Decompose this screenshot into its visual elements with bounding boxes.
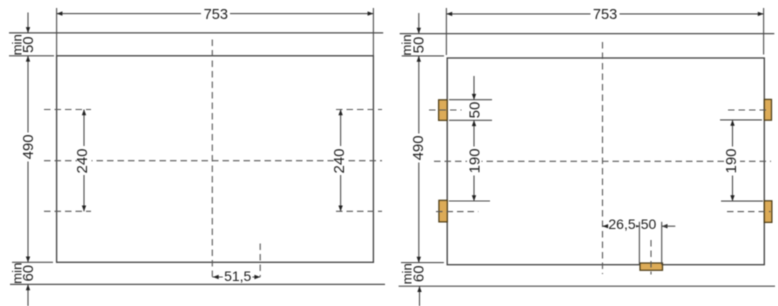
extension line left of bottom clip (right drawing) bbox=[638, 222, 640, 265]
dimension min 50 (left drawing) bbox=[9, 13, 54, 56]
svg-text:190: 190 bbox=[723, 148, 740, 173]
dimension 753 (left drawing) bbox=[57, 7, 374, 56]
horizontal centerline (right drawing) bbox=[434, 160, 771, 162]
dimension 190 left (right drawing) bbox=[449, 120, 490, 201]
dimension 490 (left drawing) bbox=[20, 56, 37, 262]
svg-text:50: 50 bbox=[467, 102, 484, 119]
vertical centerline (left drawing) bbox=[211, 40, 213, 277]
upper-left dashed mark (left drawing) bbox=[44, 109, 91, 111]
dimension 240 right (left drawing) bbox=[331, 110, 348, 212]
clip bottom-center centerline bbox=[650, 240, 652, 275]
svg-text:60: 60 bbox=[20, 265, 37, 282]
clip bottom-left centerline bbox=[436, 211, 478, 213]
countertop bottom edge (left drawing) bbox=[10, 283, 385, 285]
clip bottom-left (right drawing) bbox=[439, 200, 447, 222]
svg-text:26,5: 26,5 bbox=[608, 216, 635, 232]
clip top-left (right drawing) bbox=[439, 100, 448, 121]
dimension 753 (right drawing) bbox=[446, 6, 763, 55]
countertop top edge (right drawing) bbox=[400, 33, 775, 35]
horizontal centerline (left drawing) bbox=[44, 160, 382, 162]
svg-text:190: 190 bbox=[467, 148, 484, 173]
countertop bottom edge (right drawing) bbox=[399, 285, 775, 287]
countertop top edge (left drawing) bbox=[9, 32, 383, 34]
drain offset dashed line (left drawing) bbox=[259, 244, 261, 277]
clip bottom-right centerline bbox=[727, 211, 771, 213]
svg-text:753: 753 bbox=[593, 7, 617, 23]
clip top-right (right drawing) bbox=[764, 99, 771, 120]
dimension 190 right (right drawing) bbox=[720, 120, 763, 201]
svg-text:50: 50 bbox=[411, 37, 428, 54]
vertical centerline (right drawing) bbox=[602, 42, 604, 274]
cutout rectangle (right drawing) bbox=[447, 58, 764, 265]
svg-text:240: 240 bbox=[74, 148, 91, 173]
dimension 50 upper-left (right drawing) bbox=[449, 76, 492, 120]
upper-right dashed mark (left drawing) bbox=[336, 109, 382, 111]
svg-text:50: 50 bbox=[20, 36, 37, 53]
clip bottom-center (right drawing) bbox=[640, 263, 663, 270]
svg-text:490: 490 bbox=[410, 135, 427, 160]
lower-right dashed mark (left drawing) bbox=[336, 210, 382, 212]
clip top-left centerline bbox=[429, 109, 462, 111]
lower-left dashed mark (left drawing) bbox=[44, 210, 91, 212]
svg-text:753: 753 bbox=[204, 7, 228, 23]
dimension min 50 (right drawing) bbox=[399, 13, 444, 56]
dimension min 60 (right drawing) bbox=[400, 263, 444, 306]
clip bottom-right (right drawing) bbox=[764, 201, 772, 223]
dimension 240 left (left drawing) bbox=[74, 110, 92, 212]
cutout rectangle (left drawing) bbox=[57, 56, 374, 262]
svg-text:490: 490 bbox=[20, 134, 37, 159]
dimension 26,5 (right drawing) bbox=[603, 216, 640, 232]
extension line right of bottom clip (right drawing) bbox=[661, 222, 663, 265]
svg-text:60: 60 bbox=[411, 265, 428, 282]
dimension 51,5 (left drawing) bbox=[212, 268, 260, 284]
svg-text:50: 50 bbox=[641, 216, 657, 232]
svg-text:240: 240 bbox=[331, 148, 348, 173]
svg-text:51,5: 51,5 bbox=[224, 268, 251, 284]
dimension 490 (right drawing) bbox=[410, 56, 427, 263]
dimension min 60 (left drawing) bbox=[9, 262, 53, 306]
dimension 50 bottom (right drawing) bbox=[641, 216, 676, 232]
clip top-right centerline bbox=[728, 109, 770, 111]
